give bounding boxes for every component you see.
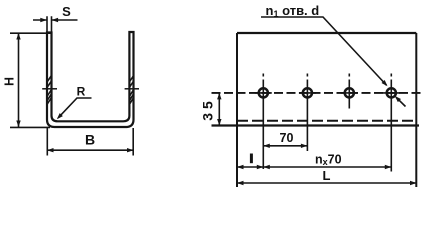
hole 4 — [387, 88, 396, 97]
hole 3 centerlines — [341, 74, 358, 109]
hole 2 centerlines — [299, 74, 316, 152]
dimension 70 arrowheads — [263, 144, 307, 148]
svg-text:n1 отв. d: n1 отв. d — [266, 3, 320, 19]
hole 4 centerlines — [383, 74, 400, 172]
dimension 70 line — [263, 145, 307, 147]
label l — [250, 154, 253, 164]
dimension B line — [47, 149, 134, 151]
break hatch band upper, left leg — [47, 76, 52, 88]
hole 1 — [259, 88, 268, 97]
dimension nx70 line — [263, 166, 391, 168]
break tick, right leg — [125, 88, 139, 90]
svg-text:nx70: nx70 — [315, 153, 342, 168]
dimension L line — [237, 182, 417, 184]
leader R arrowhead — [57, 113, 63, 119]
dimension H arrowheads — [16, 33, 20, 127]
svg-text:70: 70 — [280, 131, 294, 145]
hidden flange line (dashed) — [237, 120, 416, 122]
hole 2 — [303, 88, 312, 97]
side view rectangle right edge with extension below — [415, 33, 417, 187]
dimension L arrowheads — [237, 181, 417, 185]
svg-text:S: S — [62, 4, 71, 19]
leader R shelf and line — [58, 98, 91, 118]
hole axis centerline (dashed) — [212, 92, 422, 94]
break hatch band lower, right leg — [129, 90, 133, 105]
dimension l line — [237, 166, 263, 168]
svg-text:B: B — [85, 132, 95, 148]
svg-text:H: H — [3, 77, 17, 86]
dimension H extension lines — [10, 33, 52, 127]
svg-text:L: L — [323, 168, 331, 183]
hole 3 — [345, 88, 354, 97]
extension lines for S above left leg — [47, 16, 52, 32]
svg-text:R: R — [77, 85, 86, 99]
dimension H line — [18, 33, 20, 127]
leader n1 otv d arrowhead — [382, 80, 388, 86]
break hatch band lower, left leg — [47, 90, 52, 105]
side view rectangle top edge — [237, 32, 416, 34]
dimension 35 arrowheads — [217, 93, 221, 126]
dimension 35 line — [218, 93, 220, 126]
side view rectangle bottom edge extended left for 35 dim — [212, 124, 420, 126]
leader n1 otv d shelf and diagonal — [261, 17, 387, 85]
second leader arrow at hole 4 — [396, 97, 406, 106]
channel cross-section outline — [47, 32, 134, 127]
dimension B arrowheads — [47, 148, 134, 152]
hole 1 centerlines — [255, 74, 272, 170]
dimension B extension lines — [47, 128, 133, 156]
side view rectangle left edge with extension below — [236, 33, 238, 187]
dimension S arrows — [33, 19, 78, 21]
break tick, left leg — [42, 88, 57, 90]
dimension nx70 arrowheads — [263, 165, 391, 169]
dimension l arrowheads — [237, 165, 263, 169]
svg-text:35: 35 — [200, 101, 216, 121]
break hatch band upper, right leg — [129, 76, 133, 88]
